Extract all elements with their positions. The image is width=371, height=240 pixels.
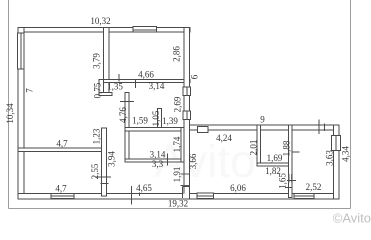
svg-text:3,14: 3,14 bbox=[149, 81, 165, 91]
wall room M bottom 3,14 3,3 bbox=[125, 159, 184, 162]
wall stub 1,05 above hall wall bbox=[157, 109, 161, 128]
svg-text:2,52: 2,52 bbox=[306, 182, 322, 192]
dim frame left line bbox=[8, 0, 10, 209]
tick 1,88 right bbox=[292, 151, 300, 153]
tick upper room bottom left bbox=[118, 74, 120, 82]
window right wall bbox=[332, 136, 341, 151]
svg-text:2,69: 2,69 bbox=[173, 96, 183, 112]
svg-text:3,63: 3,63 bbox=[325, 150, 335, 166]
wall wing small room right 1,88 1,65 bbox=[289, 125, 293, 197]
svg-text:3,94: 3,94 bbox=[107, 151, 117, 167]
door opening mid divider with swing arc bbox=[181, 174, 190, 186]
svg-text:4,7: 4,7 bbox=[55, 184, 67, 194]
wall vertical mid block divider 6 bbox=[184, 28, 190, 200]
wall right wing outer right 4,34 bbox=[334, 125, 340, 199]
tick 3,94 bottom bbox=[95, 176, 111, 178]
svg-text:10,34: 10,34 bbox=[5, 103, 15, 124]
dimension labels horizontal bbox=[55, 16, 321, 209]
wall niche left 0,75 bbox=[99, 80, 104, 96]
door bottom wall exterior bbox=[183, 187, 190, 199]
wall hall bottom 1,59 1,39 bbox=[125, 128, 190, 132]
wall right wing top 9 bbox=[184, 125, 339, 130]
svg-text:4,24: 4,24 bbox=[216, 133, 232, 143]
svg-text:1,65: 1,65 bbox=[278, 173, 288, 189]
svg-text:6: 6 bbox=[190, 74, 200, 79]
svg-text:3,3: 3,3 bbox=[152, 159, 164, 169]
door opening wing small room right wall bbox=[289, 174, 293, 183]
svg-text:©Avito: ©Avito bbox=[333, 211, 371, 226]
svg-text:2,01: 2,01 bbox=[249, 140, 259, 156]
svg-text:4,34: 4,34 bbox=[341, 146, 351, 162]
svg-text:2,86: 2,86 bbox=[172, 46, 182, 62]
svg-text:1,91: 1,91 bbox=[172, 167, 182, 183]
tick bottom wall between 4,7 and 4,65 bbox=[131, 186, 133, 205]
wall left rooms right 1,23 2,55 bbox=[102, 128, 107, 196]
svg-text:1,39: 1,39 bbox=[162, 116, 178, 126]
svg-text:1,05: 1,05 bbox=[151, 110, 161, 126]
svg-text:2,55: 2,55 bbox=[90, 163, 100, 179]
window mid divider upper bbox=[183, 87, 190, 96]
svg-text:4,66: 4,66 bbox=[138, 70, 154, 80]
wall wing small room left 2,01 bbox=[257, 125, 261, 163]
svg-text:3,66: 3,66 bbox=[188, 153, 198, 169]
tick near wing door bbox=[287, 180, 296, 182]
tick 1,65 bottom bbox=[285, 187, 293, 189]
tick between 1,35 and 3,14 bbox=[135, 80, 137, 88]
wall left rooms divider 4,7 bbox=[18, 148, 107, 152]
wall upper room bottom 4,66 bbox=[99, 80, 190, 83]
dimension labels vertical bbox=[5, 46, 351, 189]
tick room M bottom wall bbox=[167, 154, 169, 166]
svg-text:1,69: 1,69 bbox=[267, 153, 283, 163]
svg-text:1,23: 1,23 bbox=[92, 128, 102, 144]
wall niche bottom 1,35 bbox=[99, 93, 112, 96]
wall outer top 10,32 bbox=[18, 28, 190, 33]
wall wing small room bottom 1,69 1,82 bbox=[257, 163, 292, 166]
tick cross on corridor wall bbox=[120, 101, 134, 103]
window bottom wall right bbox=[294, 194, 314, 199]
svg-text:3,79: 3,79 bbox=[92, 53, 102, 69]
tick below it bbox=[101, 183, 109, 185]
window bottom wall left 4,7 bbox=[51, 194, 74, 199]
wall outer left 10,34 bbox=[18, 28, 24, 200]
wall corridor right 4,76 bbox=[125, 93, 129, 163]
dim frame bottom line 19,32 bbox=[9, 208, 351, 210]
wall outer bottom 19,32 bbox=[18, 194, 339, 200]
svg-text:4,65: 4,65 bbox=[136, 183, 152, 193]
window left wall bbox=[18, 33, 25, 69]
window mid divider lower bbox=[183, 111, 190, 120]
wall room M right 1,74 bbox=[181, 128, 184, 163]
svg-text:1,59: 1,59 bbox=[132, 116, 148, 126]
svg-text:7: 7 bbox=[25, 88, 35, 93]
dimension ticks bbox=[95, 74, 325, 205]
svg-text:4,7: 4,7 bbox=[56, 139, 68, 149]
svg-text:1,88: 1,88 bbox=[282, 140, 292, 156]
svg-text:1,35: 1,35 bbox=[107, 82, 123, 92]
ticks wing top wall bbox=[318, 120, 320, 135]
window top wall bbox=[133, 27, 157, 32]
dim frame right line bbox=[350, 0, 352, 209]
svg-text:1,74: 1,74 bbox=[172, 136, 182, 152]
window bottom wall mid 6,06 bbox=[197, 193, 214, 199]
svg-text:0,75: 0,75 bbox=[93, 82, 103, 98]
svg-text:10,32: 10,32 bbox=[90, 16, 110, 26]
opening in wing top wall bbox=[198, 126, 209, 132]
svg-text:4,76: 4,76 bbox=[118, 107, 128, 123]
svg-text:6,06: 6,06 bbox=[230, 183, 246, 193]
svg-text:9: 9 bbox=[260, 115, 265, 125]
svg-text:19,32: 19,32 bbox=[168, 199, 188, 209]
wall upper room left 3,79 bbox=[104, 28, 110, 96]
